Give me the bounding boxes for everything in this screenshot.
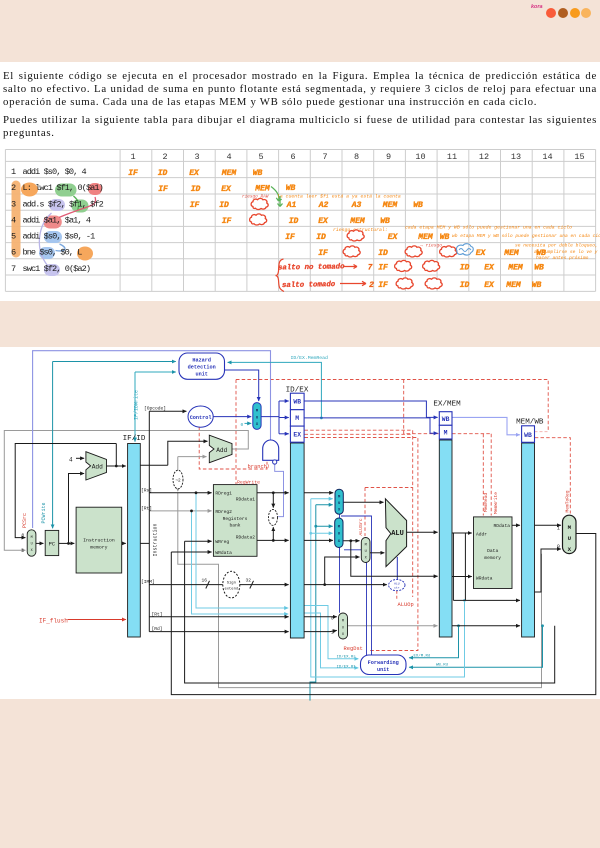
wire: PC mux to PC	[36, 542, 44, 544]
svg-text:swc1 $f2, 0($a2): swc1 $f2, 0($a2)	[23, 264, 92, 274]
svg-text:unit: unit	[377, 667, 389, 673]
svg-text:WB: WB	[534, 264, 544, 273]
svg-text:Forwarding: Forwarding	[368, 660, 399, 666]
pipeline register IF/ID	[123, 435, 146, 637]
svg-text:M: M	[31, 536, 33, 540]
svg-text:13: 13	[511, 152, 521, 162]
svg-text:A3: A3	[351, 201, 362, 210]
svg-text:ALU: ALU	[394, 583, 400, 586]
svg-text:IF/IDWrite: IF/IDWrite	[134, 390, 140, 420]
wire: ALU result EX/MEM to Addr and MEM/WB	[452, 533, 520, 600]
wire: PC to instruction memory and to Add1	[59, 474, 84, 545]
wire: [Rs] to RDreg1	[149, 491, 211, 512]
svg-text:7: 7	[322, 152, 327, 162]
svg-text:0: 0	[331, 617, 334, 622]
row3 green down arrow	[278, 196, 283, 207]
control unit	[188, 406, 213, 427]
svg-text:IF: IF	[318, 249, 328, 258]
svg-text:ALUOp: ALUOp	[398, 602, 414, 608]
svg-text:addi $s0, $0, 4: addi $s0, $0, 4	[23, 167, 87, 177]
salto no tomado line	[278, 263, 345, 272]
highlight pill a1 row2	[88, 183, 102, 195]
wire: memory RDdata to MEM/WB	[512, 524, 520, 526]
pipeline register EX/MEM	[433, 401, 461, 638]
handwritten stage marks row6	[318, 249, 546, 258]
svg-text:branch!: branch!	[248, 464, 271, 470]
svg-text:EX: EX	[388, 233, 399, 242]
svg-text:Addr: Addr	[476, 532, 487, 538]
svg-text:Registers: Registers	[223, 516, 248, 522]
highlight pill L row2	[21, 183, 38, 197]
wire: WB bundle ID/EX to EX/MEM (navy)	[304, 401, 438, 417]
svg-text:ALUSrc: ALUSrc	[358, 518, 364, 535]
row4 stall cloud	[250, 214, 267, 225]
pipeline register ID/EX	[286, 387, 309, 639]
svg-text:ID: ID	[460, 281, 470, 290]
wire: [Rt] to ID/EX bottom	[149, 616, 288, 618]
svg-text:IF: IF	[158, 185, 168, 194]
wire: EX/MEM ALU value forward (light cyan)	[309, 499, 466, 677]
EX/MEM control boxes WB M	[439, 412, 452, 439]
highlight pill f1 row3	[72, 200, 89, 213]
header dot 4	[581, 8, 591, 18]
svg-text:7: 7	[11, 264, 16, 274]
svg-text:ID: ID	[158, 169, 168, 178]
header cycle numbers	[130, 152, 584, 162]
wire: MEM/WB.Rd to forwarding unit (teal)	[409, 624, 544, 667]
svg-text:[Opcode]: [Opcode]	[144, 406, 166, 412]
row3 stall cloud	[251, 198, 268, 209]
svg-text:RDdata1: RDdata1	[236, 497, 256, 503]
highlight pill L row6	[77, 247, 93, 261]
wire: [IMM] through sign extend	[149, 581, 288, 589]
wire: M bundle ID/EX to EX/MEM (navy)	[304, 418, 438, 433]
svg-text:ID: ID	[191, 185, 201, 194]
wire: WB value forward to EX muxes (teal)	[310, 505, 333, 701]
svg-text:MEM: MEM	[382, 201, 399, 210]
svg-text:WB: WB	[442, 416, 450, 423]
control dashed: EX bundle (ALUSrc / ALUOp)	[305, 430, 413, 597]
svg-text:[Rt]: [Rt]	[141, 505, 152, 511]
salto no tomado clouds	[395, 260, 412, 271]
svg-text:addi $a1, $a1, 4: addi $a1, $a1, 4	[23, 216, 92, 226]
svg-text:WB: WB	[440, 233, 450, 242]
handwritten stage marks row2	[158, 184, 295, 194]
svg-text:ID: ID	[219, 201, 229, 210]
control dashed: MemToReg to WB mux	[535, 438, 571, 514]
row6 stall clouds	[343, 246, 360, 257]
wire: Add1 output to IF/ID and loop (black)	[107, 444, 126, 468]
processor datapath figure	[0, 340, 600, 705]
svg-text:IF_flush: IF_flush	[39, 617, 68, 624]
top beige header band	[0, 0, 600, 62]
wire: forwarding unit mux selects (navy)	[340, 514, 372, 655]
wire: shift-left-2 path (grey)	[178, 457, 542, 688]
highlight pill s0 row5	[44, 231, 62, 243]
svg-text:→ riesgo: → riesgo	[420, 243, 442, 249]
svg-text:X: X	[568, 546, 572, 553]
svg-text:extend: extend	[224, 586, 238, 591]
writeback mux	[563, 515, 577, 553]
svg-text:RDdata2: RDdata2	[236, 534, 256, 540]
control dashed: RegWrite from MEM/WB.WB to registers	[235, 380, 237, 485]
svg-text:MemRead: MemRead	[483, 493, 489, 513]
wire: WB control EX/MEM to MEM/WB (light blue)	[452, 417, 520, 434]
svg-text:[Rs]: [Rs]	[141, 487, 152, 493]
data memory	[474, 517, 513, 589]
svg-text:9: 9	[386, 152, 391, 162]
svg-text:L: lwc1 $f1, 0($a1): L: lwc1 $f1, 0($a1)	[23, 183, 104, 193]
svg-text:ID: ID	[316, 233, 326, 242]
svg-text:U: U	[342, 626, 344, 630]
svg-text:Add: Add	[92, 464, 103, 471]
paragraph 1	[3, 70, 597, 110]
wire: constant 4 into Add1	[76, 457, 84, 459]
svg-text:ID: ID	[289, 217, 299, 226]
svg-text:5: 5	[258, 152, 263, 162]
svg-text:ID/EX.Rs: ID/EX.Rs	[337, 654, 357, 659]
svg-text:WB: WB	[253, 169, 263, 178]
svg-text:6: 6	[290, 152, 295, 162]
sign extend oval	[223, 571, 240, 598]
adder Add2 (branch target)	[209, 435, 232, 463]
svg-text:Instruction: Instruction	[83, 538, 115, 544]
wire: ID/EX data2 to forward mux B	[304, 539, 333, 541]
svg-text:WB: WB	[293, 399, 301, 406]
svg-text:5: 5	[11, 232, 16, 242]
svg-text:4: 4	[11, 216, 16, 226]
svg-text:hacer antes próximo: hacer antes próximo	[536, 255, 589, 261]
svg-text:PCSrc: PCSrc	[22, 513, 28, 528]
ALUSrc mux	[361, 538, 370, 563]
dependency curve f1	[74, 196, 79, 211]
svg-text:WB: WB	[286, 184, 296, 193]
wire: ID/EX data1 to forward mux A	[304, 492, 333, 494]
wire: forward mux A to ALU	[343, 501, 383, 503]
svg-text:2: 2	[369, 281, 374, 290]
wire: immediate spur to ALUSrc mux	[323, 557, 359, 586]
svg-text:1: 1	[557, 526, 560, 532]
svg-text:11: 11	[447, 152, 457, 162]
svg-text:IF: IF	[285, 233, 295, 242]
registers bank	[213, 485, 257, 557]
bottom beige band	[0, 699, 600, 848]
wire: RDdata2 to ID/EX with comparator tap	[257, 527, 289, 542]
header dot 2	[558, 8, 568, 18]
svg-text:ID: ID	[460, 264, 470, 273]
svg-text:WRdata: WRdata	[215, 550, 232, 556]
svg-text:14: 14	[542, 152, 552, 162]
svg-text:[Rt]: [Rt]	[152, 611, 163, 617]
wire: instruction bus from IF/ID (black)	[140, 411, 149, 631]
wire: IF_flush (red)	[68, 619, 126, 621]
svg-text:M: M	[568, 524, 572, 531]
wire: ALU control line (navy)	[396, 557, 398, 580]
svg-text:A1: A1	[286, 201, 297, 210]
svg-text:EX: EX	[318, 217, 329, 226]
control dashed: ALU control to ALUOp	[396, 591, 398, 600]
wire: WRdata writeback data loop (black)	[171, 534, 596, 695]
wire: comparator to AND gate (periwinkle)	[275, 464, 284, 516]
dependency curve f2	[39, 213, 51, 266]
svg-text:Add: Add	[216, 447, 227, 454]
wire: stall mux out to ID/EX WB M EX (navy)	[261, 401, 289, 434]
wire: RDdata1 to ID/EX with comparator tap	[257, 491, 289, 507]
svg-text:wb etapa MEM y WB sólo puede g: wb etapa MEM y WB sólo puede gestionar u…	[452, 233, 600, 239]
handwritten stage marks row1	[128, 169, 262, 178]
svg-text:0: 0	[22, 534, 25, 539]
svg-text:Data: Data	[487, 548, 498, 554]
wire: ALU result to EX/MEM	[407, 531, 438, 533]
svg-text:15: 15	[574, 152, 584, 162]
hazard detection unit	[179, 353, 225, 379]
salto tomado clouds	[396, 278, 413, 289]
svg-text:16: 16	[202, 578, 208, 584]
svg-text:memory: memory	[484, 556, 501, 561]
wire: Rs to forwarding unit via ID/EX (light cyan)	[192, 493, 359, 668]
svg-text:M: M	[444, 430, 448, 437]
control dashed: link into MEM/WB WB box	[535, 431, 549, 433]
svg-text:salto no tomado: salto no tomado	[278, 263, 345, 272]
svg-text:M: M	[365, 544, 367, 548]
svg-text:1: 1	[130, 152, 135, 162]
wire: constant 0 into stall mux (teal)	[245, 422, 252, 424]
svg-text:al cumplirse se lo ve y puede: al cumplirse se lo ve y puede	[534, 249, 600, 255]
svg-text:M: M	[295, 415, 299, 422]
svg-text:MemToReg: MemToReg	[564, 490, 570, 512]
kora logo text	[531, 4, 543, 10]
shift left 2 oval	[173, 470, 183, 489]
svg-text:PC: PC	[49, 542, 55, 548]
pipeline register MEM/WB	[516, 419, 544, 638]
svg-text:10: 10	[415, 152, 425, 162]
svg-text:addi $s0, $s0, -1: addi $s0, $s0, -1	[23, 232, 96, 242]
svg-text:se necesita por doble bloqueo,: se necesita por doble bloqueo, $f2 debe	[515, 243, 600, 249]
forward mux A	[335, 489, 343, 514]
svg-text:RegDst: RegDst	[344, 646, 363, 652]
MEM/WB control box WB	[522, 426, 535, 443]
svg-text:ID: ID	[378, 249, 388, 258]
ID/EX control boxes WB M EX	[290, 393, 304, 442]
wire: opcode to Control	[149, 410, 186, 412]
handwritten stage marks row4	[222, 217, 390, 226]
svg-text:ID/EX.Rt: ID/EX.Rt	[337, 664, 356, 669]
svg-text:IF: IF	[378, 281, 388, 290]
svg-text:M: M	[342, 620, 344, 624]
svg-text:EX/MEM: EX/MEM	[433, 401, 461, 409]
svg-text:IF: IF	[378, 264, 388, 273]
svg-text:MemWrite: MemWrite	[493, 492, 499, 514]
svg-text:EX/M.Rd: EX/M.Rd	[414, 654, 431, 659]
svg-text:WB: WB	[532, 281, 542, 290]
wire: PCSrc (periwinkle, AND gate to PC mux)	[33, 351, 271, 528]
svg-text:Instruction: Instruction	[153, 523, 159, 556]
svg-text:IF/ID: IF/ID	[123, 435, 146, 443]
paragraph 2	[3, 114, 597, 140]
svg-text:unit: unit	[195, 371, 207, 377]
highlight pill f1 row2	[55, 184, 77, 197]
svg-text:RegWrite: RegWrite	[237, 479, 260, 485]
wire: Rd EX/MEM to MEM/WB	[452, 625, 520, 627]
highlight pill a1 row4	[43, 216, 62, 229]
wire: [Rd] to ID/EX bottom	[149, 631, 288, 633]
svg-text:PCWrite: PCWrite	[41, 502, 47, 523]
ALU control oval	[389, 580, 405, 591]
svg-text:32: 32	[246, 578, 252, 584]
svg-text:1: 1	[22, 549, 25, 554]
highlight pill s0 row6	[39, 247, 55, 259]
svg-text:X: X	[31, 549, 33, 553]
branch AND gate	[263, 440, 279, 464]
svg-text:cada etapa MEM y WB sólo puede: cada etapa MEM y WB sólo puede gestionar…	[405, 225, 572, 231]
wire: immediate to ALU control	[304, 584, 387, 586]
wire: MEM/WB read data to WB mux input 1	[535, 524, 561, 526]
wire: MEM/WB ALU result to WB mux input 0	[535, 549, 561, 592]
svg-text:Hazard: Hazard	[192, 357, 211, 363]
middle beige band	[0, 301, 600, 347]
highlight pill f2 row3	[49, 199, 65, 211]
row6 blue scribble cloud	[456, 244, 473, 255]
svg-text:1: 1	[331, 631, 334, 636]
svg-text:Sign: Sign	[227, 581, 236, 586]
adder Add1 (PC+4)	[86, 452, 107, 480]
svg-text:WRreg: WRreg	[215, 539, 229, 545]
svg-text:add.s $f2, $f1, $f2: add.s $f2, $f1, $f2	[23, 200, 104, 210]
wire: hazard unit to stall mux (navy)	[225, 370, 259, 401]
svg-text:EX: EX	[484, 281, 495, 290]
svg-text:WB: WB	[413, 201, 423, 210]
svg-text:EX: EX	[484, 264, 495, 273]
svg-text:~2: ~2	[175, 479, 181, 484]
control dashed: RegDst select	[305, 438, 418, 651]
control dashed: branch signal from Control to AND gate	[199, 427, 267, 469]
svg-text:detection: detection	[188, 364, 216, 370]
svg-text:[IMM]: [IMM]	[141, 579, 155, 585]
svg-text:A2: A2	[318, 201, 329, 210]
svg-text:2: 2	[162, 152, 167, 162]
svg-text:4: 4	[226, 152, 231, 162]
svg-text:memory: memory	[90, 546, 107, 551]
svg-text:Control: Control	[190, 415, 212, 421]
svg-text:bne $s0, $0, L: bne $s0, $0, L	[23, 248, 83, 258]
svg-text:WB: WB	[524, 432, 532, 439]
wire: WRreg writeback number loop (black)	[185, 541, 555, 683]
svg-text:6: 6	[11, 248, 16, 258]
wire: branch target (grey loop to PC mux)	[4, 431, 248, 551]
svg-text:RDdata: RDdata	[493, 523, 510, 529]
svg-text:MEM: MEM	[505, 281, 522, 290]
svg-text:ID/EX.MemRead: ID/EX.MemRead	[291, 355, 329, 361]
wire: forward mux B to ALUSrc mux and store data	[343, 539, 438, 576]
wire: PC+4 to branch adder (black)	[140, 441, 207, 465]
row2 green forward arrow	[271, 187, 282, 202]
svg-text:7: 7	[368, 264, 373, 273]
svg-text:WRdata: WRdata	[476, 575, 493, 581]
dependency curve s0	[56, 244, 65, 251]
wire: PCWrite (teal)	[53, 362, 176, 529]
svg-text:=: =	[271, 516, 274, 522]
control dashed: EX bundle middle row	[305, 433, 413, 435]
label mux constants	[22, 526, 560, 636]
svg-text:2: 2	[11, 183, 16, 193]
wire: EX/MEM.Rd to forwarding unit (teal)	[409, 624, 460, 657]
salto brace	[276, 259, 285, 292]
svg-text:WB.Rd: WB.Rd	[436, 662, 449, 667]
svg-text:MEM: MEM	[221, 169, 238, 178]
svg-text:U: U	[568, 535, 572, 542]
svg-text:EX: EX	[476, 249, 487, 258]
svg-text:U: U	[31, 542, 33, 546]
handwritten stage marks row3	[190, 201, 423, 210]
svg-text:MEM: MEM	[349, 217, 366, 226]
svg-text:WB: WB	[380, 217, 390, 226]
multicycle table	[0, 0, 600, 300]
handwritten stage marks row5	[285, 233, 449, 242]
svg-text:salto tomado: salto tomado	[282, 281, 336, 290]
ALU	[385, 499, 406, 567]
svg-text:EX: EX	[293, 432, 301, 439]
wire: store data EX/MEM to WRdata	[452, 576, 472, 578]
svg-text:bank: bank	[229, 523, 240, 529]
RegDst mux	[339, 613, 348, 639]
wire: ID/EX.MemRead to hazard unit (teal)	[228, 362, 323, 419]
wire: RegDst mux output (grey)	[348, 625, 438, 627]
instruction memory	[76, 507, 122, 573]
svg-text:IF: IF	[190, 201, 200, 210]
svg-text:1: 1	[11, 167, 16, 177]
forwarding unit	[361, 655, 407, 675]
svg-text:MEM: MEM	[417, 233, 434, 242]
svg-text:MEM: MEM	[503, 249, 520, 258]
svg-text:3: 3	[194, 152, 199, 162]
salto tomado line	[282, 281, 336, 290]
wire: ALUSrc mux to ALU	[370, 552, 384, 554]
table grid	[5, 150, 595, 292]
svg-text:[Rd]: [Rd]	[152, 626, 163, 632]
svg-text:MEM: MEM	[254, 185, 271, 194]
svg-text:12: 12	[479, 152, 489, 162]
wire: [Rt] field to RDreg2 (grey)	[149, 510, 211, 512]
svg-text:3: 3	[11, 200, 16, 210]
svg-text:EX: EX	[221, 185, 232, 194]
wire: IF/IDWrite (teal)	[135, 372, 176, 442]
forward mux B	[335, 518, 343, 548]
control dashed: M bundle to data memory (MemRead, MemWrite)	[404, 380, 492, 516]
header dot 3	[570, 8, 580, 18]
svg-text:EX: EX	[189, 169, 200, 178]
svg-text:U: U	[365, 550, 367, 554]
svg-text:RDreg1: RDreg1	[215, 491, 232, 497]
header dot 1	[546, 8, 556, 18]
svg-text:IF: IF	[128, 169, 138, 178]
wire: Control to stall mux (navy)	[213, 416, 251, 418]
wire: Rt / Rd into RegDst mux	[304, 617, 337, 632]
stall mux (control bubble insert)	[253, 403, 261, 430]
svg-text:MEM: MEM	[507, 264, 524, 273]
svg-text:IF: IF	[222, 217, 232, 226]
dependency curve a1	[59, 197, 96, 218]
wire: instruction memory to IF/ID	[122, 542, 126, 544]
PC source mux	[27, 530, 36, 556]
control dashed: WB bundle top run	[236, 380, 548, 432]
svg-text:ctr: ctr	[394, 586, 400, 589]
svg-text:RDreg2: RDreg2	[215, 509, 232, 515]
wire: PC+4 loop to PC mux (black)	[15, 444, 116, 538]
highlight pill f2 row7	[44, 264, 60, 276]
svg-text:8: 8	[354, 152, 359, 162]
instruction rows	[11, 167, 104, 274]
svg-text:ALU: ALU	[391, 530, 404, 538]
